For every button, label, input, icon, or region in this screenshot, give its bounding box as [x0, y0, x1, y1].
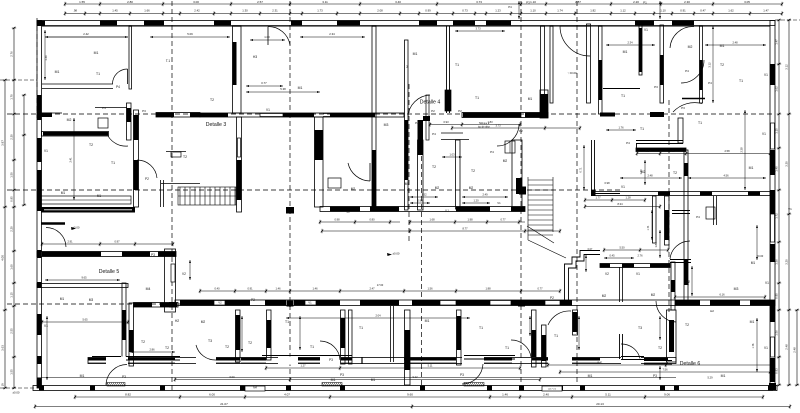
partition pier — [573, 312, 578, 332]
bottom dimension chain 2 — [34, 404, 791, 408]
door arc — [348, 163, 370, 181]
bottom exterior wall — [33, 386, 777, 391]
party wall pier — [134, 115, 139, 140]
door gap — [320, 357, 341, 365]
svg-text:M1: M1 — [80, 374, 85, 378]
wall — [456, 140, 461, 209]
wall — [390, 306, 392, 362]
small wall — [621, 356, 644, 358]
door leaf — [369, 163, 371, 181]
wall — [464, 355, 515, 357]
svg-text:0.73: 0.73 — [462, 9, 468, 13]
svg-text:2.91: 2.91 — [67, 239, 73, 243]
fixture — [505, 141, 515, 153]
bottom wall post — [160, 386, 165, 391]
door arc — [670, 26, 694, 48]
door arc — [656, 301, 676, 322]
south wall segment — [241, 358, 266, 361]
door arc — [320, 341, 340, 360]
dim arrows — [45, 36, 128, 38]
svg-text:3.00: 3.00 — [193, 0, 199, 4]
stepped wall outer — [565, 251, 601, 301]
door arc — [681, 60, 704, 83]
svg-text:2.34: 2.34 — [627, 41, 633, 45]
svg-text:M1: M1 — [413, 52, 418, 56]
left exterior wall — [37, 21, 42, 389]
svg-text:1.88: 1.88 — [485, 286, 491, 290]
svg-text:P4: P4 — [696, 215, 700, 219]
partition pier — [669, 320, 674, 352]
T2 wall — [671, 262, 675, 310]
svg-text:M2: M2 — [602, 294, 607, 298]
axis wall line — [323, 113, 372, 115]
partition — [457, 310, 462, 365]
svg-text:P2: P2 — [519, 129, 523, 133]
svg-text:20.13: 20.13 — [596, 402, 604, 406]
wall segment — [445, 90, 451, 111]
dim arrows — [46, 316, 48, 380]
svg-text:2.42: 2.42 — [194, 9, 200, 13]
interior dim — [451, 126, 581, 130]
svg-text:T1: T1 — [640, 127, 644, 131]
door arc top — [268, 26, 290, 45]
svg-text:T2: T2 — [141, 340, 145, 344]
entry wall pier — [591, 190, 596, 196]
axis wall segment — [190, 113, 200, 118]
svg-text:V1: V1 — [636, 272, 640, 276]
wall pier — [660, 55, 664, 85]
bottom walkway line — [37, 377, 676, 379]
dim arrows — [246, 91, 320, 93]
svg-text:1.46: 1.46 — [312, 286, 318, 290]
left dimension chain 1 — [3, 79, 7, 389]
wall — [52, 112, 62, 114]
wall — [682, 98, 705, 100]
svg-text:↑ ±0.00: ↑ ±0.00 — [567, 71, 577, 75]
svg-text:P4: P4 — [508, 5, 512, 9]
dim arrows — [246, 85, 283, 87]
svg-text:2.31: 2.31 — [272, 9, 278, 13]
wall pier — [418, 120, 424, 155]
axis wall segment — [200, 113, 228, 117]
wall segment — [38, 113, 52, 117]
wall segment — [650, 264, 670, 268]
svg-text:5.65: 5.65 — [82, 317, 88, 321]
svg-text:1.76: 1.76 — [618, 125, 624, 129]
axis line D — [408, 84, 410, 242]
svg-text:M1: M1 — [371, 378, 376, 382]
room wall segment — [160, 303, 177, 308]
wall corner — [670, 262, 691, 264]
wall — [163, 180, 165, 207]
wall pier — [665, 210, 670, 240]
detalle3 wall pier — [237, 160, 242, 200]
axis wall center seg — [463, 113, 521, 118]
top wall inner line — [42, 26, 770, 28]
west wall pier — [405, 120, 409, 180]
interior dim — [174, 377, 541, 381]
door gap — [196, 357, 216, 365]
interior dim — [41, 320, 129, 324]
axis wall segment — [156, 113, 174, 118]
south wall inner line — [241, 362, 266, 364]
detalle5 wall segment — [158, 252, 176, 257]
wall — [665, 196, 670, 245]
right wall pier — [770, 358, 775, 382]
svg-text:2.55: 2.55 — [9, 328, 13, 334]
svg-text:V1: V1 — [308, 301, 312, 305]
left wall pier — [37, 95, 42, 120]
svg-text:0.80: 0.80 — [369, 217, 375, 221]
svg-text:M4: M4 — [146, 287, 151, 291]
north wall segment — [265, 300, 286, 306]
left inner dim — [73, 118, 75, 200]
svg-text:T2: T2 — [225, 345, 229, 349]
svg-text:1.46: 1.46 — [502, 392, 508, 396]
bath wall — [426, 95, 429, 140]
interior dim — [559, 370, 771, 374]
small wall — [644, 363, 672, 365]
dim arrows — [286, 317, 470, 319]
svg-text:0.71: 0.71 — [578, 167, 582, 173]
partition pier — [457, 316, 462, 350]
svg-text:T1: T1 — [698, 121, 702, 125]
bottom wall label box — [542, 386, 562, 391]
axis line F — [520, 1, 522, 390]
svg-text:0.98: 0.98 — [334, 217, 340, 221]
south wall segment — [88, 358, 106, 361]
entry wall — [591, 140, 593, 196]
svg-text:1.23: 1.23 — [495, 9, 501, 13]
wall segment — [600, 264, 610, 268]
svg-text:3.40: 3.40 — [395, 0, 401, 4]
left wall pier — [37, 170, 42, 211]
svg-text:P4: P4 — [490, 150, 494, 154]
dim arrows — [756, 318, 758, 372]
window V1 — [305, 301, 316, 306]
party wall — [599, 26, 603, 114]
south wall inner line — [88, 362, 106, 364]
door arc — [46, 228, 66, 248]
svg-text:3.87: 3.87 — [0, 140, 4, 146]
axis junction block — [519, 187, 526, 195]
right wall pier — [770, 190, 775, 214]
north wall segment — [180, 300, 214, 306]
P3 ticks — [518, 1, 520, 19]
bottom wall post — [519, 386, 524, 391]
svg-text:M1: M1 — [751, 261, 756, 265]
corridor wall with windows — [320, 207, 525, 212]
svg-text:V1: V1 — [764, 73, 768, 77]
entry wall — [594, 140, 596, 196]
axis block — [169, 302, 176, 308]
wall segment — [540, 94, 548, 118]
svg-text:5.11: 5.11 — [428, 363, 433, 367]
axis wall segment — [330, 113, 375, 117]
svg-text:M1: M1 — [588, 374, 593, 378]
svg-text:1.10: 1.10 — [530, 0, 536, 4]
bottom rooms south wall — [88, 358, 676, 364]
svg-text:0.85: 0.85 — [9, 196, 13, 202]
left wall pier — [37, 282, 42, 288]
interior wall — [42, 132, 109, 137]
detalle3 window V1 — [238, 138, 241, 157]
axis line E — [421, 140, 423, 390]
svg-text:1.83: 1.83 — [487, 120, 493, 124]
axis wall segment — [650, 112, 664, 117]
planter inner line — [41, 199, 131, 201]
room wall — [122, 283, 126, 364]
right wall pier — [770, 300, 775, 322]
axis wall center — [462, 113, 548, 118]
svg-text:T2: T2 — [210, 98, 214, 102]
north wall segment — [294, 300, 305, 306]
svg-text:M1: M1 — [623, 50, 628, 54]
svg-text:1.15: 1.15 — [9, 292, 13, 298]
svg-text:P3: P3 — [329, 358, 333, 362]
svg-text:V2: V2 — [218, 301, 222, 305]
svg-text:T1: T1 — [310, 345, 314, 349]
detalle5 south wall — [37, 284, 128, 288]
door arc — [548, 311, 571, 325]
window lintel bar — [144, 21, 164, 26]
svg-text:M2: M2 — [688, 45, 693, 49]
svg-text:21.07: 21.07 — [220, 402, 228, 406]
wall — [129, 26, 132, 89]
partition pier — [341, 318, 346, 348]
party wall pier — [599, 60, 603, 100]
south wall inner line — [128, 362, 175, 364]
north wall segment — [750, 300, 770, 306]
dim arrows — [410, 196, 438, 198]
svg-text:3.12: 3.12 — [708, 62, 712, 68]
svg-text:1.98: 1.98 — [467, 217, 473, 221]
svg-text:M2: M2 — [435, 186, 440, 190]
svg-text:1.00: 1.00 — [264, 35, 270, 39]
south wall segment — [341, 358, 352, 361]
entry wall — [594, 193, 620, 195]
svg-text:V1: V1 — [762, 132, 766, 136]
south wall inner line — [572, 362, 600, 364]
partition pier — [542, 335, 547, 361]
wall — [603, 88, 640, 90]
svg-text:T2: T2 — [685, 323, 689, 327]
svg-text:V1: V1 — [621, 185, 625, 189]
svg-text:3.05: 3.05 — [744, 0, 750, 4]
svg-text:M1: M1 — [750, 320, 755, 324]
dim arrows — [455, 30, 505, 32]
svg-text:M3: M3 — [734, 287, 739, 291]
svg-text:5.11: 5.11 — [605, 392, 611, 396]
dim arrows — [606, 44, 655, 46]
axis wall line — [323, 116, 372, 118]
door arc — [196, 345, 216, 360]
svg-text:0.99: 0.99 — [425, 9, 431, 13]
dim arrows — [604, 257, 634, 259]
corridor south wall band — [41, 207, 135, 213]
left dim connector — [0, 387, 35, 389]
dim arrows — [659, 366, 661, 380]
partition — [619, 334, 621, 359]
svg-text:0.45: 0.45 — [609, 253, 615, 257]
bottom wall post — [558, 386, 563, 391]
svg-text:M2: M2 — [503, 159, 508, 163]
room east wall — [315, 117, 324, 207]
left dim connector — [0, 79, 37, 81]
svg-text:T1: T1 — [505, 346, 509, 350]
svg-text:1.10: 1.10 — [660, 9, 666, 13]
corridor wall segment — [370, 207, 399, 212]
axis wall center seg — [525, 113, 548, 118]
south wall inner line — [404, 362, 430, 364]
top-left corner block — [37, 21, 45, 27]
bottom rooms north wall — [175, 300, 775, 306]
svg-text:0.98: 0.98 — [604, 181, 610, 185]
svg-text:M1: M1 — [61, 191, 66, 195]
closet — [171, 152, 181, 157]
svg-text:P4: P4 — [116, 85, 120, 89]
svg-text:1.62: 1.62 — [728, 9, 734, 13]
door arc P2 — [137, 160, 157, 178]
svg-text:P3: P3 — [142, 109, 146, 113]
wall — [619, 267, 621, 302]
svg-text:3.73: 3.73 — [476, 0, 482, 4]
window lintel bar — [291, 21, 302, 26]
svg-text:Detalle 3: Detalle 3 — [206, 122, 227, 128]
interior dim — [547, 363, 770, 367]
wall pier — [639, 28, 642, 72]
room north dim line — [45, 36, 128, 38]
party wall top pier — [233, 42, 237, 85]
axis line 1 horizontal — [7, 113, 772, 115]
dim arrows — [462, 202, 490, 204]
dim arrows — [659, 316, 661, 340]
north wall segment — [710, 300, 740, 306]
wall — [464, 358, 515, 360]
svg-text:T2: T2 — [658, 346, 662, 350]
door gap — [462, 357, 484, 365]
svg-text:P4: P4 — [626, 141, 630, 145]
svg-text:1.45: 1.45 — [112, 9, 118, 13]
right wall window V1 — [771, 214, 775, 242]
svg-text:1.27: 1.27 — [300, 363, 306, 367]
svg-text:T2: T2 — [720, 63, 724, 67]
axis block — [286, 207, 294, 214]
dim arrows — [241, 316, 243, 352]
right dimension chain 2 — [787, 19, 791, 386]
right wall pier — [770, 64, 775, 85]
bath wall — [678, 118, 683, 143]
detalle3 east wall — [237, 117, 242, 212]
svg-text:P3: P3 — [460, 373, 464, 377]
door arc — [106, 365, 127, 386]
wall with windows — [600, 264, 670, 268]
svg-text:T1: T1 — [455, 63, 459, 67]
svg-text:Detalle 5: Detalle 5 — [99, 269, 120, 275]
left wall pier — [37, 250, 42, 258]
axis corner dot — [769, 383, 776, 390]
planter — [41, 196, 131, 204]
axis wall segment — [283, 113, 314, 117]
door arc — [108, 136, 128, 146]
svg-text:0.07: 0.07 — [588, 248, 593, 251]
svg-text:2.20: 2.20 — [9, 226, 13, 232]
north wall segment — [456, 300, 490, 306]
south wall segment — [128, 358, 175, 361]
svg-text:±0.00: ±0.00 — [393, 252, 400, 256]
svg-text:T2: T2 — [248, 341, 252, 345]
partition — [573, 310, 578, 335]
svg-text:V.1: V.1 — [445, 209, 449, 213]
svg-text:P3: P3 — [340, 373, 344, 377]
svg-text:6.00: 6.00 — [209, 392, 215, 396]
door leaf — [127, 69, 129, 84]
dim arrows — [189, 260, 191, 280]
svg-text:2.48: 2.48 — [732, 41, 738, 45]
window V1 — [440, 301, 456, 306]
svg-text:9.60: 9.60 — [407, 392, 413, 396]
svg-text:T2: T2 — [432, 165, 436, 169]
big party wall — [684, 150, 688, 302]
svg-text:4.56: 4.56 — [723, 173, 729, 177]
svg-text:3.11: 3.11 — [322, 0, 328, 4]
left wall pier — [37, 356, 42, 364]
bottom wall post — [240, 386, 245, 391]
svg-text:2.48: 2.48 — [793, 347, 797, 353]
svg-text:2.42: 2.42 — [83, 32, 89, 36]
dim arrows — [410, 202, 430, 204]
window lintel bar — [672, 21, 694, 26]
svg-text:T.1: T.1 — [166, 59, 170, 63]
svg-text:8.82: 8.82 — [125, 392, 131, 396]
svg-text:M2: M2 — [201, 320, 206, 324]
north wall segment — [412, 300, 440, 306]
detalle5 wall segment — [122, 252, 150, 257]
room wall — [134, 303, 179, 308]
hall south wall — [636, 148, 686, 152]
door arc P4 — [113, 69, 128, 84]
svg-text:±0.00: ±0.00 — [757, 254, 764, 258]
svg-text:1.10: 1.10 — [530, 9, 536, 13]
wall — [166, 151, 186, 153]
svg-text:2.30: 2.30 — [9, 134, 13, 140]
window lintel bar — [419, 21, 437, 26]
partition — [349, 310, 353, 364]
svg-text:±0.00: ±0.00 — [13, 391, 20, 395]
door sill hatch — [464, 383, 484, 387]
wall — [126, 359, 180, 361]
svg-text:9.41: 9.41 — [597, 360, 603, 364]
svg-text:3.12: 3.12 — [784, 64, 788, 70]
svg-text:1.93: 1.93 — [687, 280, 690, 285]
svg-text:M1: M1 — [55, 70, 60, 74]
interior dim — [265, 366, 521, 370]
fixture line — [509, 141, 511, 153]
partition pier — [236, 315, 241, 350]
svg-text:1.60: 1.60 — [9, 264, 13, 270]
stair flight — [178, 187, 236, 205]
svg-text:Detalle 6: Detalle 6 — [680, 361, 701, 367]
svg-text:8.77: 8.77 — [462, 226, 468, 230]
svg-text:P3: P3 — [526, 1, 530, 5]
top dimension chain 2 — [64, 11, 783, 15]
wall — [161, 183, 200, 185]
interior dim — [636, 151, 771, 155]
bottom wall post — [487, 386, 492, 391]
svg-text:6.00: 6.00 — [229, 375, 235, 379]
svg-text:1.46: 1.46 — [44, 55, 48, 61]
south wall inner line — [430, 362, 456, 364]
